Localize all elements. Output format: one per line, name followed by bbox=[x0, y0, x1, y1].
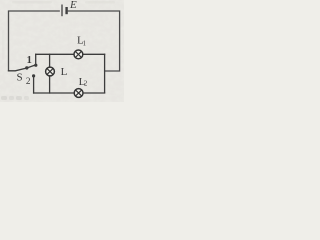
svg-text:L: L bbox=[61, 66, 68, 78]
svg-text:1: 1 bbox=[27, 55, 32, 66]
svg-text:2: 2 bbox=[26, 76, 31, 86]
svg-text:E: E bbox=[69, 0, 77, 11]
svg-text:S: S bbox=[17, 71, 23, 83]
